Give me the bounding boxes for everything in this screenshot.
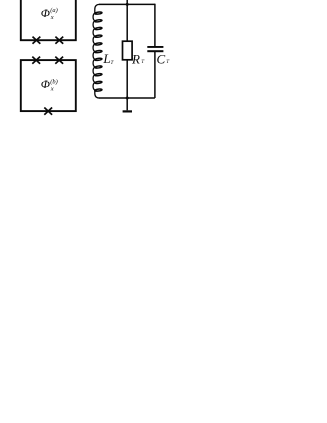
node dot: bottom junction — [126, 97, 129, 100]
inductor L_T coil — [93, 4, 99, 98]
svg-text:T: T — [166, 59, 170, 65]
Josephson junction X2 (loop a bottom-right) — [55, 37, 63, 44]
wire: top rail of tank circuit — [99, 3, 155, 5]
label R_T — [131, 51, 145, 66]
svg-text:Φ: Φ — [41, 79, 50, 91]
svg-text:(a): (a) — [50, 7, 57, 14]
svg-text:R: R — [131, 51, 140, 66]
SQUID loop a (square, top cut off) — [21, 0, 76, 40]
Josephson junction X3 (loop b top-left) — [32, 57, 40, 64]
inductor coil loops — [95, 12, 102, 92]
label L_T — [102, 51, 114, 66]
Josephson junction X5 (loop b bottom) — [44, 108, 52, 115]
svg-text:T: T — [141, 59, 145, 65]
ground — [123, 98, 132, 113]
label flux Phi_x^(b) — [41, 78, 58, 92]
svg-text:Φ: Φ — [41, 8, 50, 20]
svg-text:L: L — [102, 51, 110, 66]
SQUID loop b (square) — [21, 60, 76, 111]
svg-text:(b): (b) — [50, 78, 57, 85]
node dot: top junction — [126, 3, 129, 6]
svg-text:T: T — [111, 60, 115, 66]
wire: middle branch upper (to resistor) — [126, 4, 128, 41]
wire: right branch upper (to capacitor) — [154, 4, 156, 47]
resistor R_T body — [123, 41, 133, 60]
wire: bottom rail of tank circuit — [99, 97, 155, 99]
svg-text:x: x — [50, 85, 54, 92]
label flux Phi_x^(a) — [41, 7, 58, 21]
svg-text:C: C — [157, 51, 166, 66]
Josephson junction X4 (loop b top-right) — [55, 57, 63, 64]
Josephson junction X1 (loop a bottom-left) — [33, 37, 41, 44]
wire: middle branch lower (from resistor) — [126, 60, 128, 98]
label C_T — [157, 51, 171, 66]
svg-text:x: x — [50, 14, 54, 21]
capacitor C_T plates — [147, 46, 163, 52]
wire: right branch lower (from capacitor) — [154, 52, 156, 98]
wire: stub above top node — [126, 0, 128, 4]
